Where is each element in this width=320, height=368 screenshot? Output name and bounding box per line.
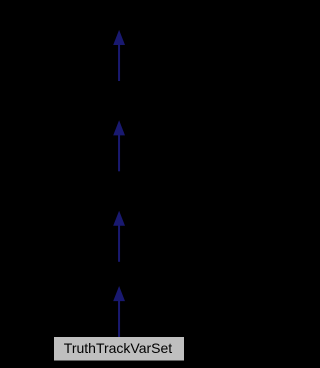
node TruthTrackVarSet [54,337,184,361]
inheritance arrow A4 (bottom) [113,286,125,337]
inheritance arrow A1 (top) [113,30,125,81]
svg-text:TruthTrackVarSet: TruthTrackVarSet [64,340,173,356]
inheritance arrow A3 [113,211,125,262]
inheritance arrow A2 [113,120,125,171]
